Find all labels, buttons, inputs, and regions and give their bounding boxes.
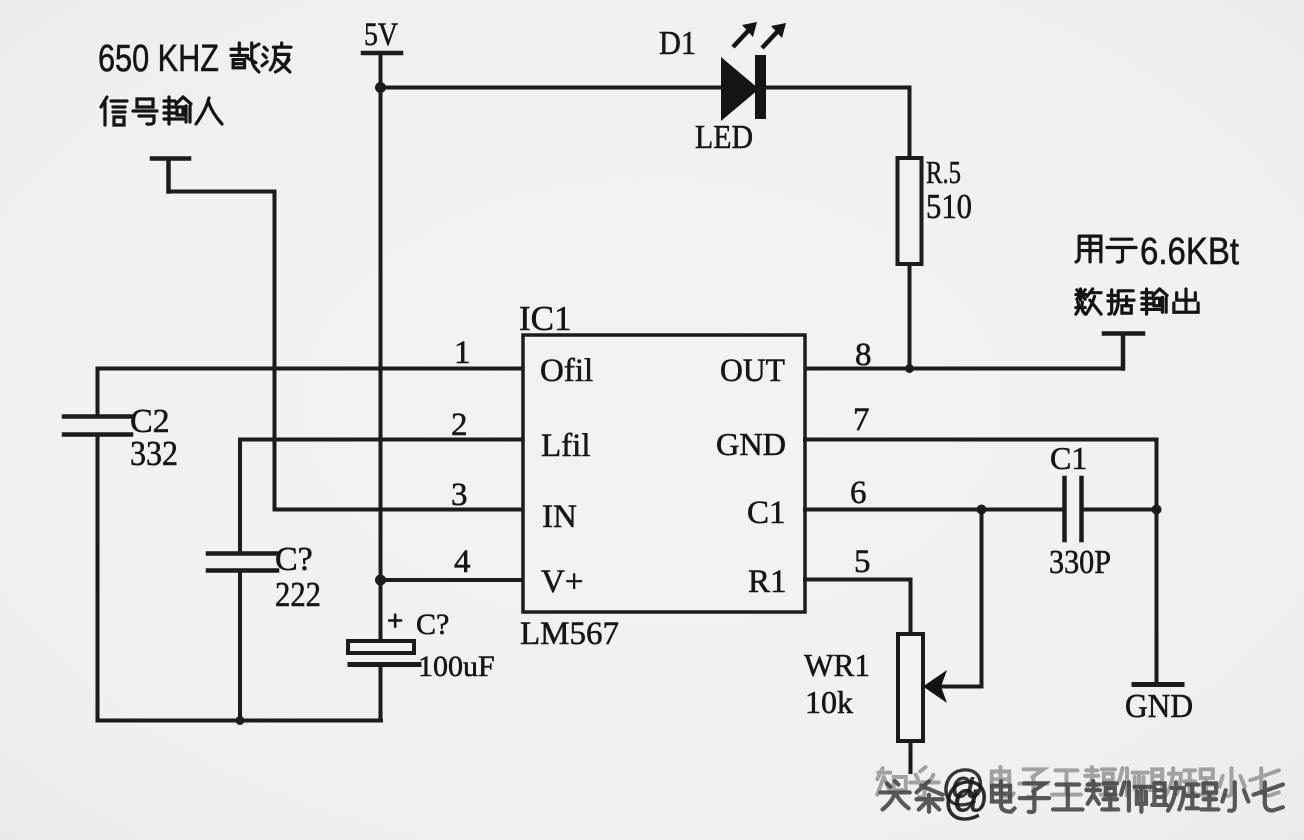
svg-text:332: 332 bbox=[130, 434, 178, 473]
wire pin3 bbox=[275, 508, 524, 512]
svg-text:330P: 330P bbox=[1049, 544, 1111, 581]
svg-text:IN: IN bbox=[542, 499, 577, 535]
annotation carrier glyphs bbox=[231, 43, 291, 72]
capacitor C1 plates bbox=[1065, 478, 1082, 540]
LED D1 cathode bar bbox=[755, 55, 766, 119]
svg-text:6: 6 bbox=[850, 475, 867, 511]
svg-text:5V: 5V bbox=[364, 17, 398, 53]
wire input run bbox=[169, 192, 275, 510]
capacitor C2 plates bbox=[64, 417, 131, 435]
junction 5V-LED bbox=[375, 82, 386, 93]
annotation data output glyphs bbox=[1076, 289, 1198, 314]
node output terminal bbox=[1104, 334, 1143, 369]
watermark line B bbox=[880, 772, 1283, 824]
svg-text:+: + bbox=[387, 605, 403, 636]
power 5V bar bbox=[363, 51, 401, 56]
svg-text:OUT: OUT bbox=[720, 353, 785, 389]
annotation signal input glyphs bbox=[101, 97, 222, 125]
svg-text:GND: GND bbox=[716, 426, 786, 462]
svg-text:1: 1 bbox=[454, 335, 471, 371]
wire pin7 GND bbox=[805, 440, 1157, 685]
node input terminal bbox=[152, 159, 189, 192]
svg-text:2: 2 bbox=[451, 407, 468, 443]
svg-text:5: 5 bbox=[854, 544, 871, 580]
svg-text:650 KHZ: 650 KHZ bbox=[98, 38, 219, 80]
capacitor C4 bottom plate bbox=[350, 662, 419, 667]
wire 5V rail vertical bbox=[379, 55, 383, 641]
junction bottom rail bbox=[236, 716, 245, 725]
svg-text:510: 510 bbox=[926, 187, 972, 226]
wire pin4 bbox=[381, 578, 524, 582]
watermark line A bbox=[877, 761, 1279, 810]
svg-text:@: @ bbox=[943, 772, 990, 824]
wire C4 bottom bbox=[379, 667, 383, 721]
op-amp IC1 box bbox=[523, 335, 805, 612]
svg-text:100uF: 100uF bbox=[418, 650, 495, 683]
svg-text:IC1: IC1 bbox=[519, 299, 572, 338]
junction 5V-pin4 bbox=[375, 575, 386, 586]
ground GND bar bbox=[1134, 682, 1182, 687]
svg-text:Ofil: Ofil bbox=[540, 353, 593, 389]
LED D1 triangle bbox=[721, 57, 759, 121]
potentiometer wiper arrow bbox=[923, 670, 947, 703]
svg-text:R.5: R.5 bbox=[926, 154, 961, 190]
svg-text:8: 8 bbox=[855, 337, 872, 373]
wire pin6 bbox=[805, 508, 1064, 512]
resistor R5 body bbox=[898, 158, 922, 264]
svg-text:C?: C? bbox=[416, 608, 449, 641]
svg-text:3: 3 bbox=[451, 477, 468, 513]
wire bottom rail bbox=[98, 719, 382, 723]
svg-text:222: 222 bbox=[275, 575, 321, 614]
svg-text:LED: LED bbox=[695, 119, 753, 156]
wire wiper run bbox=[941, 510, 982, 687]
junction R5-OUT bbox=[905, 364, 914, 373]
svg-text:7: 7 bbox=[853, 402, 870, 438]
svg-text:R1: R1 bbox=[748, 564, 787, 600]
svg-text:LM567: LM567 bbox=[520, 616, 619, 652]
wire pin2 bbox=[240, 440, 523, 553]
LED arrow 2 bbox=[762, 23, 786, 48]
wire C3 bottom bbox=[238, 572, 242, 721]
svg-text:C?: C? bbox=[275, 541, 313, 578]
svg-text:C1: C1 bbox=[747, 495, 786, 531]
capacitor C4 top plate bbox=[348, 641, 414, 653]
svg-text:WR1: WR1 bbox=[804, 647, 870, 683]
svg-text:Lfil: Lfil bbox=[541, 428, 590, 464]
wire OUT pin8 bbox=[805, 367, 1123, 371]
LED arrow 1 bbox=[733, 22, 757, 47]
svg-text:V+: V+ bbox=[541, 564, 583, 600]
wire R5 bottom bbox=[908, 264, 912, 369]
wire pin1 bbox=[98, 369, 524, 416]
potentiometer WR1 body bbox=[898, 634, 923, 741]
svg-text:10k: 10k bbox=[805, 684, 853, 720]
junction C1-GND bbox=[1152, 505, 1162, 515]
svg-text:6.6KBt: 6.6KBt bbox=[1140, 231, 1239, 273]
capacitor C3 plates bbox=[208, 554, 277, 571]
wire C2 bottom bbox=[96, 436, 100, 721]
wire pin5 bbox=[805, 580, 911, 635]
wire C1 right bbox=[1082, 508, 1157, 512]
annotation for 6.6KBt bbox=[1076, 236, 1136, 262]
svg-text:GND: GND bbox=[1125, 688, 1193, 725]
junction wiper-pin6 bbox=[977, 505, 987, 515]
svg-text:4: 4 bbox=[454, 544, 471, 580]
wire LED row left bbox=[381, 86, 723, 90]
svg-text:D1: D1 bbox=[659, 25, 696, 62]
wire WR1 bottom bbox=[909, 741, 913, 772]
svg-text:C1: C1 bbox=[1050, 440, 1087, 476]
wire LED row right bbox=[764, 88, 910, 160]
